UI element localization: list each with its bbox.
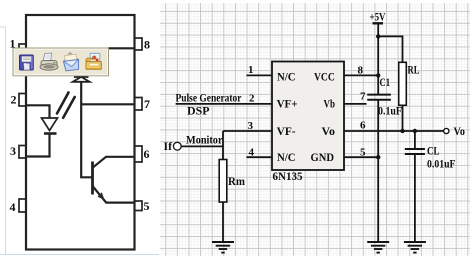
svg-text:VF+: VF+	[277, 96, 298, 110]
svg-text:4: 4	[10, 200, 16, 214]
svg-text:3: 3	[248, 120, 254, 132]
svg-text:7: 7	[360, 91, 366, 103]
svg-text:4: 4	[249, 146, 255, 158]
svg-text:3: 3	[10, 144, 16, 158]
svg-text:Pulse Generator: Pulse Generator	[176, 91, 243, 105]
svg-text:0.1uF: 0.1uF	[378, 104, 402, 118]
svg-text:VCC: VCC	[314, 70, 335, 84]
svg-text:6: 6	[360, 120, 366, 132]
svg-text:0.01uF: 0.01uF	[427, 157, 456, 171]
svg-text:5: 5	[360, 147, 366, 159]
svg-text:1: 1	[248, 64, 254, 76]
svg-text:7: 7	[144, 97, 150, 111]
svg-text:Vo: Vo	[454, 124, 466, 138]
svg-text:6: 6	[144, 147, 150, 161]
svg-text:Vo: Vo	[322, 124, 336, 138]
svg-text:N/C: N/C	[277, 70, 296, 84]
svg-text:Rm: Rm	[228, 174, 245, 188]
svg-text:8: 8	[358, 64, 364, 76]
svg-text:2: 2	[11, 93, 17, 107]
svg-text:RL: RL	[408, 63, 420, 77]
svg-text:GND: GND	[311, 150, 335, 164]
svg-text:8: 8	[144, 38, 150, 52]
svg-text:+5V: +5V	[370, 9, 386, 23]
svg-text:6N135: 6N135	[273, 169, 303, 183]
svg-text:If: If	[164, 139, 173, 153]
svg-text:CL: CL	[427, 144, 440, 158]
svg-text:Vb: Vb	[324, 96, 336, 110]
svg-text:VF-: VF-	[277, 124, 296, 138]
svg-text:N/C: N/C	[277, 150, 296, 164]
svg-text:DSP: DSP	[187, 104, 210, 118]
svg-text:Monitor: Monitor	[186, 132, 223, 146]
svg-text:C1: C1	[380, 75, 391, 89]
svg-text:5: 5	[144, 199, 150, 213]
svg-text:2: 2	[249, 93, 255, 105]
